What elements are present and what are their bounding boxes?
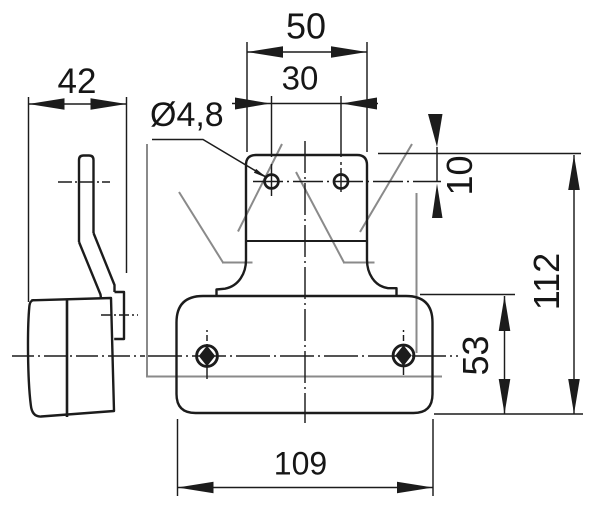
svg-text:109: 109 (274, 446, 327, 482)
dimension 42 (29, 97, 127, 302)
bracket hole left vertical center (271, 164, 273, 196)
bracket top reference line (378, 153, 581, 155)
dimension 53 (420, 295, 515, 415)
svg-text:53: 53 (455, 335, 496, 375)
front bracket fold line (247, 240, 366, 242)
svg-text:10: 10 (439, 155, 480, 195)
watermark W up stroke 1 (238, 144, 282, 232)
10 upper arrow (428, 114, 443, 147)
front view (177, 155, 433, 413)
watermark W up stroke 2 (360, 144, 412, 232)
30 right arrow (342, 98, 378, 110)
bracket hole left (265, 175, 279, 189)
dimension 50 (247, 42, 367, 152)
50 right extension line (366, 42, 368, 152)
42 dim line (29, 103, 127, 105)
bracket hole right vertical center (340, 162, 342, 192)
112 bottom arrow (568, 379, 580, 414)
42 left extension line (28, 97, 30, 302)
vertical center line front view (304, 141, 306, 423)
front lamp body (177, 296, 433, 413)
center lines (12, 141, 458, 423)
30 left arrow (235, 98, 271, 110)
side bracket strap (79, 156, 94, 243)
50 dim line (247, 51, 367, 53)
42 left arrow (29, 98, 65, 110)
svg-text:112: 112 (526, 253, 567, 310)
112 text (526, 253, 567, 310)
10 lower arrow (432, 184, 443, 219)
109 right extension line (432, 419, 434, 496)
side bracket strap lower diagonal right (94, 233, 115, 292)
30 dim line (232, 103, 378, 105)
50 left extension line (246, 42, 248, 152)
53 top reference line (420, 294, 515, 296)
body hole left (197, 346, 218, 367)
112 top arrow (568, 155, 580, 190)
watermark W flat bottom 1 (222, 262, 253, 264)
53 dim line (504, 296, 506, 414)
side lens outline (28, 298, 114, 417)
50 left arrow (247, 46, 283, 58)
Ø4,8 leader line (152, 140, 266, 178)
body hole right (393, 345, 414, 366)
Ø4,8 leader arrow (254, 169, 267, 178)
50 right arrow (331, 46, 367, 58)
109 left extension line (177, 419, 179, 496)
svg-text:30: 30 (282, 60, 319, 97)
53 bottom arrow (499, 379, 511, 414)
watermark logo gray strokes (146, 144, 442, 377)
10 text (439, 155, 480, 195)
109 left arrow (178, 482, 214, 494)
10 dim line stub (436, 147, 438, 182)
svg-text:42: 42 (58, 62, 97, 101)
bracket hole right (334, 175, 348, 189)
53 text (455, 335, 496, 375)
body hole left diamond (199, 346, 215, 367)
watermark W flat bottom 2 (343, 262, 375, 264)
bottom reference line (434, 413, 583, 415)
dimension 109 (178, 419, 434, 496)
dimension 30 (232, 96, 378, 157)
42 right extension line (126, 97, 128, 273)
42 right arrow (91, 98, 127, 110)
side bracket strap lower diagonal left (79, 242, 101, 298)
watermark box left side (146, 144, 148, 376)
30 right extension line (340, 96, 342, 157)
side view strap hole center line (58, 181, 110, 183)
horizontal center line body holes front (148, 355, 458, 357)
side mounting foot (114, 292, 124, 339)
watermark vertical stroke (416, 193, 418, 353)
30 left extension line (271, 96, 273, 157)
body hole left vertical center (206, 330, 208, 379)
watermark W stroke 2 down (296, 172, 344, 263)
53 top arrow (499, 296, 511, 331)
109 dim line (178, 487, 434, 489)
watermark box bottom (146, 376, 442, 378)
side lens divider line (66, 300, 69, 418)
112 dim line (573, 155, 575, 414)
svg-text:50: 50 (286, 6, 326, 47)
dimension 112 (434, 155, 583, 414)
body hole right diamond (395, 345, 411, 366)
dimension 10 (378, 147, 581, 182)
horizontal center line bracket holes (253, 181, 441, 183)
body hole right vertical center (403, 330, 405, 375)
109 right arrow (397, 482, 433, 494)
side view foot hole center line (101, 314, 138, 316)
side view body hole center line (12, 355, 145, 357)
svg-text:Ø4,8: Ø4,8 (150, 96, 224, 134)
front bracket outline (217, 155, 397, 296)
watermark W stroke 1 down (179, 192, 223, 263)
side view (28, 156, 124, 418)
